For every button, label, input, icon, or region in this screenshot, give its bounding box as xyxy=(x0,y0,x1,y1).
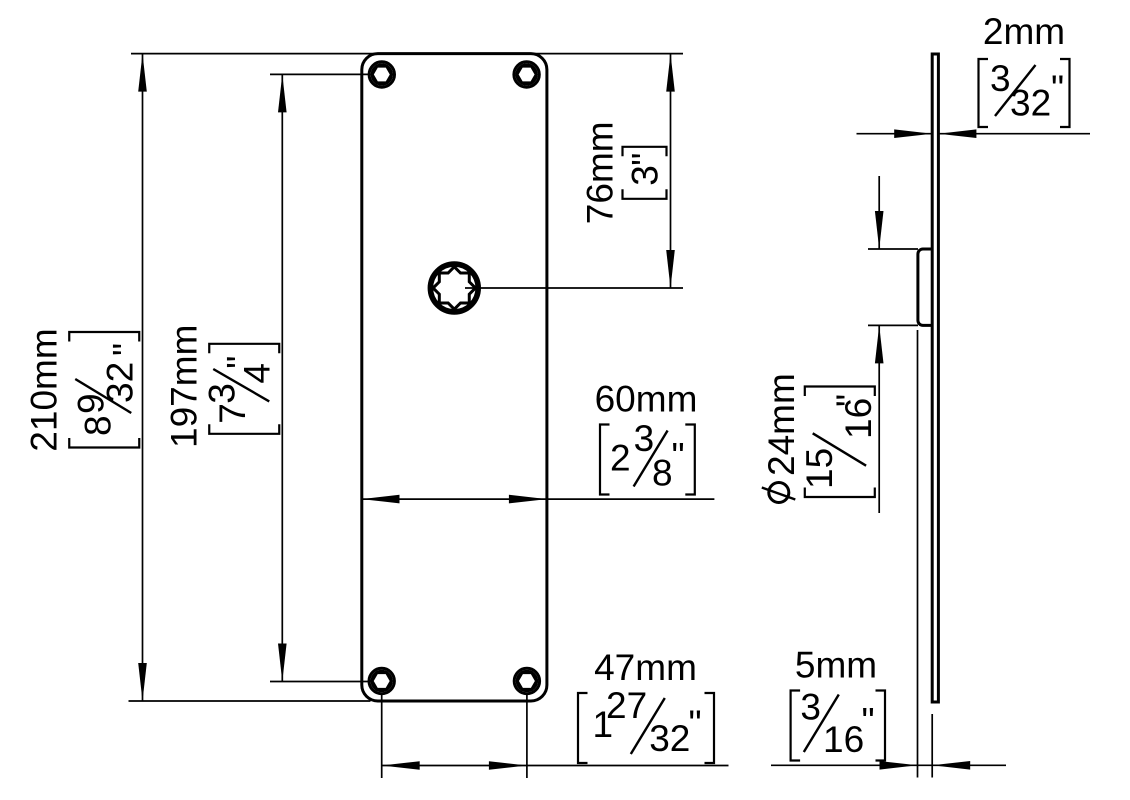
svg-text:197mm: 197mm xyxy=(163,325,204,448)
extension line bottom 210mm xyxy=(129,700,371,702)
dimension line 2mm xyxy=(857,129,1091,138)
svg-text:210mm: 210mm xyxy=(23,328,64,451)
extension line top shared 210mm/76mm xyxy=(131,53,683,55)
svg-text:3: 3 xyxy=(800,687,821,728)
svg-text:32: 32 xyxy=(649,718,690,759)
svg-text:": " xyxy=(625,153,666,166)
label 2mm xyxy=(979,11,1070,127)
svg-text:3: 3 xyxy=(990,58,1011,99)
svg-text:3: 3 xyxy=(201,383,242,404)
screw hole top-right xyxy=(514,62,539,87)
svg-text:": " xyxy=(829,394,870,407)
label 197mm rotated xyxy=(163,325,279,448)
extension line top 197mm xyxy=(270,73,369,75)
svg-text:2: 2 xyxy=(610,438,631,479)
extension line 47mm right xyxy=(526,694,528,778)
dimension line 5mm xyxy=(771,761,1006,770)
svg-text:16: 16 xyxy=(823,719,864,760)
extension line 47mm left xyxy=(381,694,383,778)
extension line dia24 bottom xyxy=(868,324,918,326)
extension line dia24 top xyxy=(868,248,918,250)
plate front view outline xyxy=(362,54,547,701)
label 5mm xyxy=(791,645,885,761)
screw hole bottom-left xyxy=(369,668,394,693)
screw hole top-left xyxy=(369,62,394,87)
svg-text:": " xyxy=(689,703,702,744)
svg-text:": " xyxy=(105,343,146,356)
svg-text:8: 8 xyxy=(652,453,673,494)
dimension line 197mm xyxy=(278,74,287,681)
label dia24mm rotated xyxy=(761,373,879,502)
svg-text:32: 32 xyxy=(1010,83,1051,124)
label 76mm rotated xyxy=(580,121,667,224)
screw hole bottom-right xyxy=(514,668,539,693)
dimension line 76mm xyxy=(666,54,675,288)
extension line 5mm right xyxy=(931,714,933,778)
extension line 5mm left xyxy=(917,330,919,778)
leader line torx to 76mm xyxy=(465,287,683,289)
svg-text:5mm: 5mm xyxy=(795,645,877,686)
label 210mm rotated xyxy=(23,328,146,451)
svg-text:24mm: 24mm xyxy=(761,373,802,476)
side view boss xyxy=(918,249,932,325)
svg-text:76mm: 76mm xyxy=(580,121,621,224)
extension line bottom 197mm xyxy=(270,681,371,683)
svg-text:7: 7 xyxy=(212,403,253,424)
side view plate xyxy=(932,54,938,702)
dimension line dia24mm xyxy=(875,176,884,513)
torx spindle hole xyxy=(430,264,478,312)
svg-text:15: 15 xyxy=(799,448,840,489)
svg-text:": " xyxy=(1051,68,1064,109)
svg-text:2mm: 2mm xyxy=(983,11,1065,52)
svg-text:": " xyxy=(862,701,875,742)
dimension line 60mm xyxy=(362,495,715,504)
svg-text:60mm: 60mm xyxy=(595,379,698,420)
label 60mm xyxy=(595,379,698,495)
svg-text:32: 32 xyxy=(99,362,140,403)
svg-text:": " xyxy=(672,436,685,477)
label 47mm xyxy=(578,647,714,763)
svg-text:27: 27 xyxy=(606,685,647,726)
dimension line 210mm xyxy=(138,54,147,701)
dimension line 47mm xyxy=(382,761,729,770)
svg-text:8: 8 xyxy=(77,415,118,436)
svg-text:": " xyxy=(219,356,260,369)
svg-text:3: 3 xyxy=(625,165,666,186)
svg-text:47mm: 47mm xyxy=(594,647,697,688)
